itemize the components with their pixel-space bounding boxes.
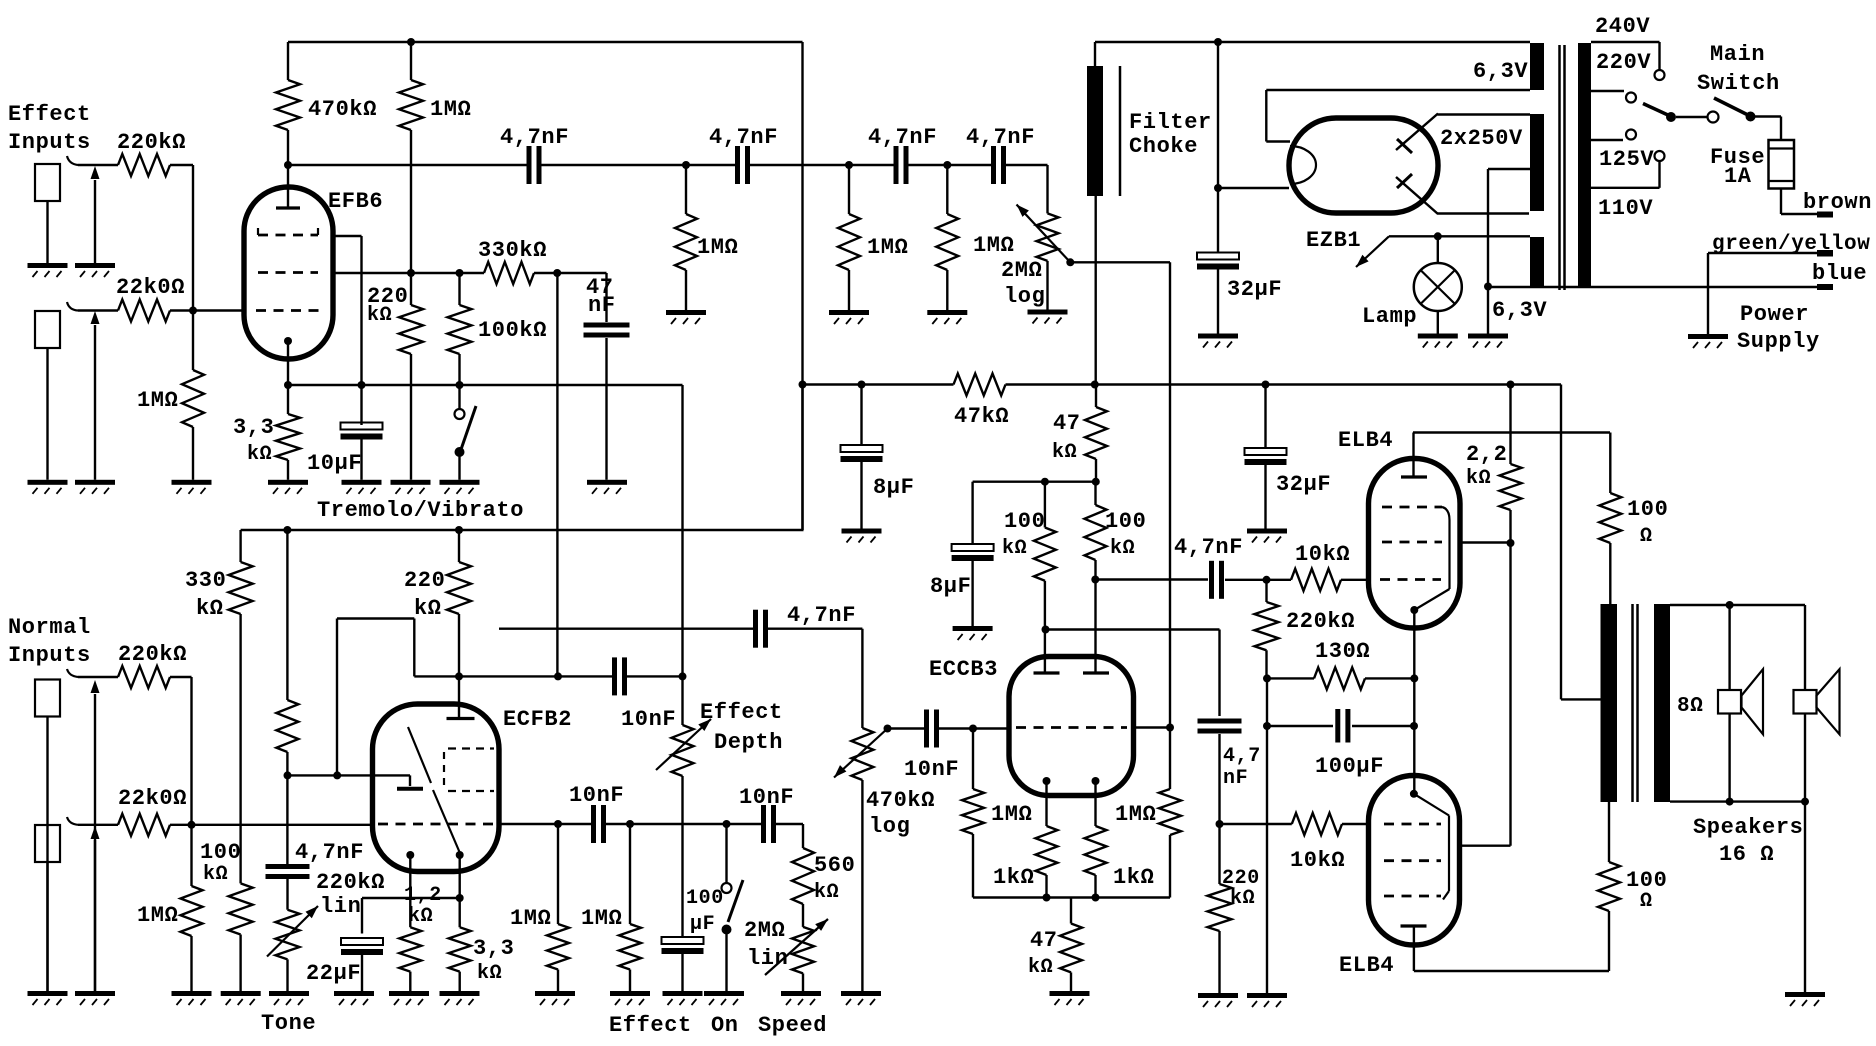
svg-text:1MΩ: 1MΩ <box>973 233 1014 258</box>
svg-text:220kΩ: 220kΩ <box>117 130 186 155</box>
svg-text:Depth: Depth <box>714 730 783 755</box>
svg-text:1kΩ: 1kΩ <box>1113 865 1154 890</box>
svg-text:kΩ: kΩ <box>1110 537 1135 560</box>
svg-text:Ω: Ω <box>1640 525 1653 548</box>
svg-text:Normal: Normal <box>8 615 91 640</box>
svg-text:Ω: Ω <box>1640 890 1653 913</box>
svg-text:4,7nF: 4,7nF <box>1174 535 1243 560</box>
svg-text:330kΩ: 330kΩ <box>478 238 547 263</box>
svg-text:47: 47 <box>1030 928 1058 953</box>
svg-text:220kΩ: 220kΩ <box>118 642 187 667</box>
svg-text:32µF: 32µF <box>1276 472 1331 497</box>
svg-text:220kΩ: 220kΩ <box>1286 609 1355 634</box>
svg-text:8µF: 8µF <box>930 574 971 599</box>
svg-text:4,7nF: 4,7nF <box>787 603 856 628</box>
svg-text:1MΩ: 1MΩ <box>510 906 551 931</box>
svg-text:Switch: Switch <box>1697 71 1780 96</box>
svg-text:4,7: 4,7 <box>1223 745 1261 768</box>
svg-text:kΩ: kΩ <box>1002 537 1027 560</box>
svg-text:4,7nF: 4,7nF <box>295 840 364 865</box>
svg-text:kΩ: kΩ <box>1466 467 1491 490</box>
svg-text:1,2: 1,2 <box>404 884 442 907</box>
svg-text:10nF: 10nF <box>739 785 794 810</box>
svg-text:On: On <box>711 1013 739 1038</box>
svg-text:4,7nF: 4,7nF <box>868 125 937 150</box>
svg-text:470kΩ: 470kΩ <box>308 97 377 122</box>
svg-text:560: 560 <box>814 853 855 878</box>
svg-text:lin: lin <box>320 894 361 919</box>
svg-text:1kΩ: 1kΩ <box>993 865 1034 890</box>
svg-text:100: 100 <box>1105 509 1146 534</box>
svg-text:kΩ: kΩ <box>814 881 839 904</box>
svg-text:10µF: 10µF <box>307 451 362 476</box>
svg-text:nF: nF <box>588 293 616 318</box>
svg-text:240V: 240V <box>1595 14 1650 39</box>
svg-text:8Ω: 8Ω <box>1677 695 1703 718</box>
svg-text:220V: 220V <box>1596 50 1651 75</box>
svg-text:Speed: Speed <box>758 1013 827 1038</box>
svg-text:4,7nF: 4,7nF <box>500 125 569 150</box>
svg-text:110V: 110V <box>1598 196 1653 221</box>
svg-text:kΩ: kΩ <box>1230 887 1255 910</box>
svg-text:10nF: 10nF <box>621 707 676 732</box>
svg-text:Effect: Effect <box>8 102 91 127</box>
svg-text:kΩ: kΩ <box>196 596 224 621</box>
svg-text:Filter: Filter <box>1129 110 1212 135</box>
svg-text:Power: Power <box>1740 302 1809 327</box>
svg-text:ELB4: ELB4 <box>1338 428 1393 453</box>
svg-text:log: log <box>869 814 910 839</box>
svg-text:2MΩ: 2MΩ <box>1001 258 1042 283</box>
svg-text:kΩ: kΩ <box>1052 441 1077 464</box>
svg-text:220: 220 <box>404 568 445 593</box>
svg-text:2,2: 2,2 <box>1466 442 1507 467</box>
svg-text:Lamp: Lamp <box>1362 304 1417 329</box>
svg-text:100: 100 <box>1627 497 1668 522</box>
svg-text:Supply: Supply <box>1737 329 1820 354</box>
svg-text:Effect: Effect <box>609 1013 692 1038</box>
svg-text:3,3: 3,3 <box>473 936 514 961</box>
svg-text:log: log <box>1004 284 1045 309</box>
svg-text:brown: brown <box>1803 190 1872 215</box>
svg-text:130Ω: 130Ω <box>1315 639 1370 664</box>
svg-text:100: 100 <box>1004 509 1045 534</box>
svg-text:1MΩ: 1MΩ <box>1115 802 1156 827</box>
svg-text:4,7nF: 4,7nF <box>709 125 778 150</box>
svg-text:220kΩ: 220kΩ <box>316 870 385 895</box>
svg-text:100: 100 <box>200 840 241 865</box>
svg-text:Tremolo/Vibrato: Tremolo/Vibrato <box>317 498 524 523</box>
svg-text:kΩ: kΩ <box>203 863 228 886</box>
svg-text:Main: Main <box>1710 42 1765 67</box>
svg-text:Speakers: Speakers <box>1693 815 1803 840</box>
svg-text:µF: µF <box>690 913 715 936</box>
svg-text:3,3: 3,3 <box>233 415 274 440</box>
svg-text:EZB1: EZB1 <box>1306 228 1361 253</box>
svg-text:1A: 1A <box>1724 164 1752 189</box>
svg-text:100µF: 100µF <box>1315 754 1384 779</box>
svg-text:1MΩ: 1MΩ <box>581 906 622 931</box>
svg-text:22k0Ω: 22k0Ω <box>116 275 185 300</box>
svg-text:ECFB2: ECFB2 <box>503 707 572 732</box>
svg-text:green/yellow: green/yellow <box>1712 233 1870 256</box>
svg-text:8µF: 8µF <box>873 475 914 500</box>
svg-text:ECCB3: ECCB3 <box>929 657 998 682</box>
svg-text:1MΩ: 1MΩ <box>137 903 178 928</box>
svg-text:16 Ω: 16 Ω <box>1719 842 1774 867</box>
svg-text:blue: blue <box>1812 261 1867 286</box>
svg-text:4,7nF: 4,7nF <box>966 125 1035 150</box>
svg-text:Tone: Tone <box>261 1011 316 1036</box>
svg-text:1MΩ: 1MΩ <box>991 802 1032 827</box>
svg-text:2x250V: 2x250V <box>1440 126 1523 151</box>
svg-text:Inputs: Inputs <box>8 130 91 155</box>
svg-text:kΩ: kΩ <box>367 304 392 327</box>
svg-text:330: 330 <box>185 568 226 593</box>
svg-text:Effect: Effect <box>700 700 783 725</box>
svg-text:1MΩ: 1MΩ <box>137 388 178 413</box>
svg-text:1MΩ: 1MΩ <box>867 235 908 260</box>
svg-text:10nF: 10nF <box>904 757 959 782</box>
svg-text:Inputs: Inputs <box>8 643 91 668</box>
svg-text:EFB6: EFB6 <box>328 189 383 214</box>
svg-text:100kΩ: 100kΩ <box>478 318 547 343</box>
svg-text:470kΩ: 470kΩ <box>866 788 935 813</box>
svg-text:kΩ: kΩ <box>247 443 272 466</box>
svg-text:6,3V: 6,3V <box>1473 59 1528 84</box>
svg-text:32µF: 32µF <box>1227 277 1282 302</box>
svg-text:22µF: 22µF <box>306 961 361 986</box>
svg-text:1MΩ: 1MΩ <box>430 97 471 122</box>
svg-text:lin: lin <box>747 946 788 971</box>
svg-text:kΩ: kΩ <box>408 905 433 928</box>
svg-text:ELB4: ELB4 <box>1339 953 1394 978</box>
svg-text:2MΩ: 2MΩ <box>744 918 785 943</box>
svg-text:kΩ: kΩ <box>1028 956 1053 979</box>
svg-text:125V: 125V <box>1599 147 1654 172</box>
svg-text:10nF: 10nF <box>569 783 624 808</box>
svg-text:100: 100 <box>686 887 724 910</box>
svg-text:47: 47 <box>1053 411 1081 436</box>
svg-text:Choke: Choke <box>1129 134 1198 159</box>
svg-text:kΩ: kΩ <box>477 962 502 985</box>
svg-text:1MΩ: 1MΩ <box>697 235 738 260</box>
svg-text:47kΩ: 47kΩ <box>954 404 1009 429</box>
svg-text:kΩ: kΩ <box>414 596 442 621</box>
svg-text:22k0Ω: 22k0Ω <box>118 786 187 811</box>
svg-text:nF: nF <box>1223 767 1248 790</box>
svg-text:10kΩ: 10kΩ <box>1295 542 1350 567</box>
svg-text:6,3V: 6,3V <box>1492 298 1547 323</box>
svg-text:10kΩ: 10kΩ <box>1290 848 1345 873</box>
